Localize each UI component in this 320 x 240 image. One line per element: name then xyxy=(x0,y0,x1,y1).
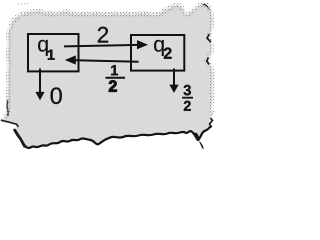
state box q2 xyxy=(131,35,184,71)
dark underline of left flap xyxy=(2,120,19,126)
label q2 xyxy=(154,40,164,56)
label 3/2 fraction xyxy=(184,85,191,96)
label 1/2 fraction xyxy=(111,65,118,75)
speckles along right edge xyxy=(207,12,214,114)
label q1 xyxy=(38,40,48,56)
faint detached speck streak top-left xyxy=(18,3,28,6)
bottom arrow q2 -> q1 xyxy=(76,60,139,62)
dark accent right nicks xyxy=(207,34,211,42)
state box q1 xyxy=(28,34,79,71)
thick dark on lower-left diagonal xyxy=(15,130,25,147)
speckles top-right notch xyxy=(180,4,212,15)
dark right-corner edge xyxy=(210,118,213,127)
speckled torn texture along top edge xyxy=(10,6,182,27)
dark torn shadow band along bottom edge xyxy=(15,127,211,148)
dark spike bottom-right xyxy=(194,133,200,142)
down arrow from q2 xyxy=(173,69,175,86)
speckles along left edge xyxy=(5,28,11,118)
torn paper body xyxy=(2,4,214,148)
dark accent left middle xyxy=(7,100,8,116)
top arrow q1 -> q2 xyxy=(64,45,138,47)
dark curl top right corner xyxy=(202,4,210,11)
label 0 xyxy=(51,87,62,104)
white background xyxy=(0,0,220,160)
label 2 xyxy=(98,27,108,43)
detached dark streak bottom-right xyxy=(199,142,204,150)
down arrow from q1 xyxy=(39,69,41,93)
